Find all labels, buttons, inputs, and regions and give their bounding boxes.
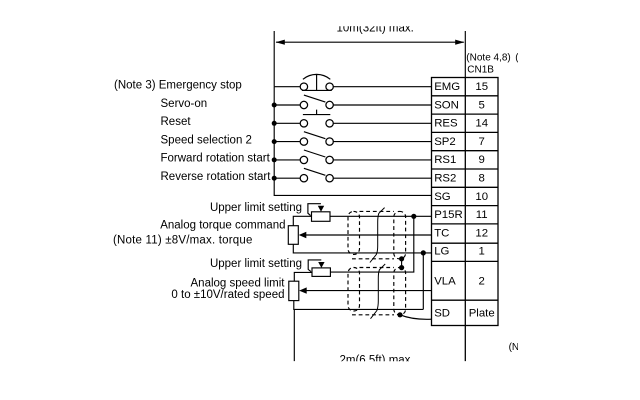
svg-text:LG: LG (434, 246, 449, 258)
svg-text:0 to ±10V/rated speed: 0 to ±10V/rated speed (171, 289, 284, 301)
svg-text:Speed selection 2: Speed selection 2 (161, 134, 252, 146)
svg-text:Reverse rotation start: Reverse rotation start (161, 171, 272, 183)
svg-text:5: 5 (479, 99, 485, 111)
svg-text:15: 15 (475, 81, 488, 93)
svg-text:(Note 4,8): (Note 4,8) (466, 52, 510, 63)
svg-text:14: 14 (475, 118, 488, 130)
svg-text:Analog speed limit: Analog speed limit (191, 277, 286, 289)
svg-text:Forward rotation start: Forward rotation start (161, 153, 271, 165)
svg-text:SP2: SP2 (434, 136, 456, 148)
svg-text:TC: TC (434, 227, 449, 239)
svg-text:Servo-on: Servo-on (161, 98, 208, 110)
svg-text:(Note 11) ±8V/max. torque: (Note 11) ±8V/max. torque (113, 234, 253, 246)
svg-text:SON: SON (434, 99, 459, 111)
svg-text:Upper limit setting: Upper limit setting (210, 258, 302, 270)
svg-text:10: 10 (475, 191, 488, 203)
svg-text:Plate: Plate (469, 308, 495, 320)
svg-text:RS2: RS2 (434, 173, 456, 185)
svg-text:SG: SG (434, 191, 451, 203)
svg-text:RS1: RS1 (434, 154, 456, 166)
svg-text:9: 9 (479, 154, 485, 166)
svg-text:(Note 3) Emergency stop: (Note 3) Emergency stop (114, 80, 242, 92)
svg-text:SD: SD (434, 308, 450, 320)
svg-text:1: 1 (479, 246, 485, 258)
svg-text:P15R: P15R (434, 209, 463, 221)
svg-text:Analog torque command: Analog torque command (160, 219, 285, 231)
svg-text:2: 2 (479, 276, 485, 288)
svg-text:VLA: VLA (434, 276, 456, 288)
svg-text:Upper limit setting: Upper limit setting (210, 202, 302, 214)
svg-text:12: 12 (475, 227, 488, 239)
svg-text:7: 7 (479, 136, 485, 148)
svg-text:(N: (N (509, 342, 520, 353)
svg-text:EMG: EMG (434, 81, 460, 93)
svg-text:8: 8 (479, 173, 485, 185)
svg-text:Reset: Reset (161, 116, 192, 128)
svg-text:11: 11 (476, 209, 488, 221)
svg-text:RES: RES (434, 118, 458, 130)
svg-text:CN1B: CN1B (467, 64, 494, 75)
